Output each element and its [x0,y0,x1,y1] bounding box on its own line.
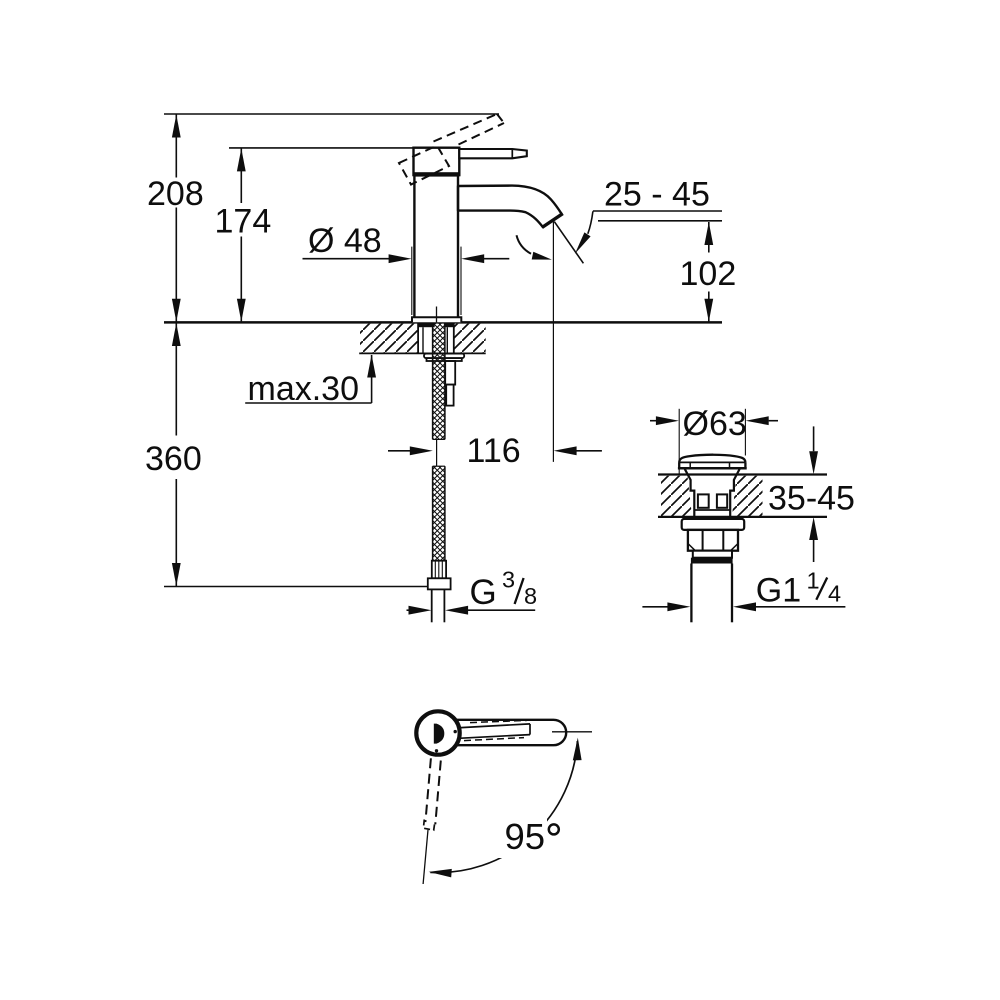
svg-text:1: 1 [807,568,820,594]
svg-text:3: 3 [502,567,515,593]
svg-text:35-45: 35-45 [768,480,855,518]
svg-text:max.30: max.30 [248,370,360,408]
svg-text:208: 208 [147,175,204,213]
svg-text:174: 174 [215,203,272,241]
svg-text:25 - 45: 25 - 45 [604,176,710,214]
svg-text:102: 102 [680,255,737,293]
svg-text:8: 8 [524,583,537,609]
svg-text:4: 4 [828,581,841,607]
svg-text:G: G [470,573,497,612]
svg-text:95: 95 [505,816,546,857]
svg-text:116: 116 [467,432,521,470]
svg-text:Ø63: Ø63 [683,405,747,443]
svg-text:360: 360 [145,440,202,478]
svg-text:G1: G1 [756,572,801,610]
svg-text:Ø 48: Ø 48 [308,222,382,260]
